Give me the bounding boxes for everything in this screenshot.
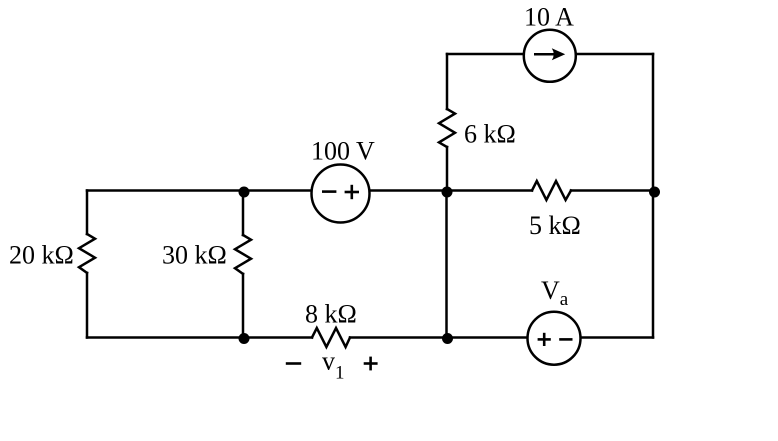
100V plus symbol: [345, 185, 359, 199]
wire 30k branch upper: [242, 191, 245, 236]
svg-text:6 kΩ: 6 kΩ: [464, 120, 516, 149]
node dot at right middle: [649, 187, 660, 198]
wire Va source to bottom-right corner: [581, 336, 654, 339]
current source arrow: [534, 48, 565, 60]
resistor 8 kOhm (horizontal zigzag): [312, 328, 350, 347]
resistor 30 kOhm (vertical zigzag): [235, 235, 251, 274]
wire top-left segment to current source: [447, 53, 525, 56]
svg-text:30 kΩ: 30 kΩ: [162, 240, 227, 269]
node dot at bottom middle: [442, 333, 453, 344]
svg-text:10 A: 10 A: [524, 3, 574, 32]
svg-text:20 kΩ: 20 kΩ: [9, 241, 74, 270]
resistor 6 kOhm (vertical zigzag): [439, 109, 455, 147]
Va plus symbol: [538, 333, 551, 346]
wire middle vertical upper (node to 6k): [446, 54, 449, 109]
wire 5k to right node: [571, 189, 653, 192]
label plus of v1: [364, 357, 378, 371]
wire right vertical branch: [652, 54, 655, 338]
wire middle horizontal left segment: [87, 189, 312, 192]
svg-text:Va: Va: [541, 276, 569, 310]
wire left vertical upper: [86, 191, 89, 235]
100V minus symbol: [322, 190, 336, 193]
wire bottom left segment: [87, 336, 312, 339]
current source I1 10 A (circle): [524, 30, 576, 82]
voltage source 100 V (circle): [312, 165, 370, 223]
wire 6k to middle node: [446, 147, 449, 191]
svg-text:100 V: 100 V: [311, 137, 375, 166]
svg-text:v1: v1: [322, 347, 345, 384]
svg-text:8 kΩ: 8 kΩ: [305, 300, 357, 329]
svg-text:5 kΩ: 5 kΩ: [529, 211, 581, 240]
resistor 5 kOhm (horizontal zigzag): [532, 181, 571, 200]
wire 8k to bottom middle node: [350, 336, 528, 339]
node dot at 30k top: [239, 187, 250, 198]
wire 30k branch lower: [242, 274, 245, 338]
label minus of v1: [286, 362, 301, 365]
resistor 20 kOhm (vertical zigzag): [79, 234, 95, 273]
node dot at 30k bottom: [239, 333, 250, 344]
wire left vertical lower: [86, 273, 89, 338]
wire current source to top-right corner: [576, 53, 654, 56]
wire middle vertical lower segment: [445, 191, 448, 338]
voltage source Va (circle): [528, 312, 581, 365]
Va minus symbol: [559, 338, 572, 341]
node dot at middle cross: [442, 187, 453, 198]
wire 100V source to middle node: [370, 189, 533, 192]
